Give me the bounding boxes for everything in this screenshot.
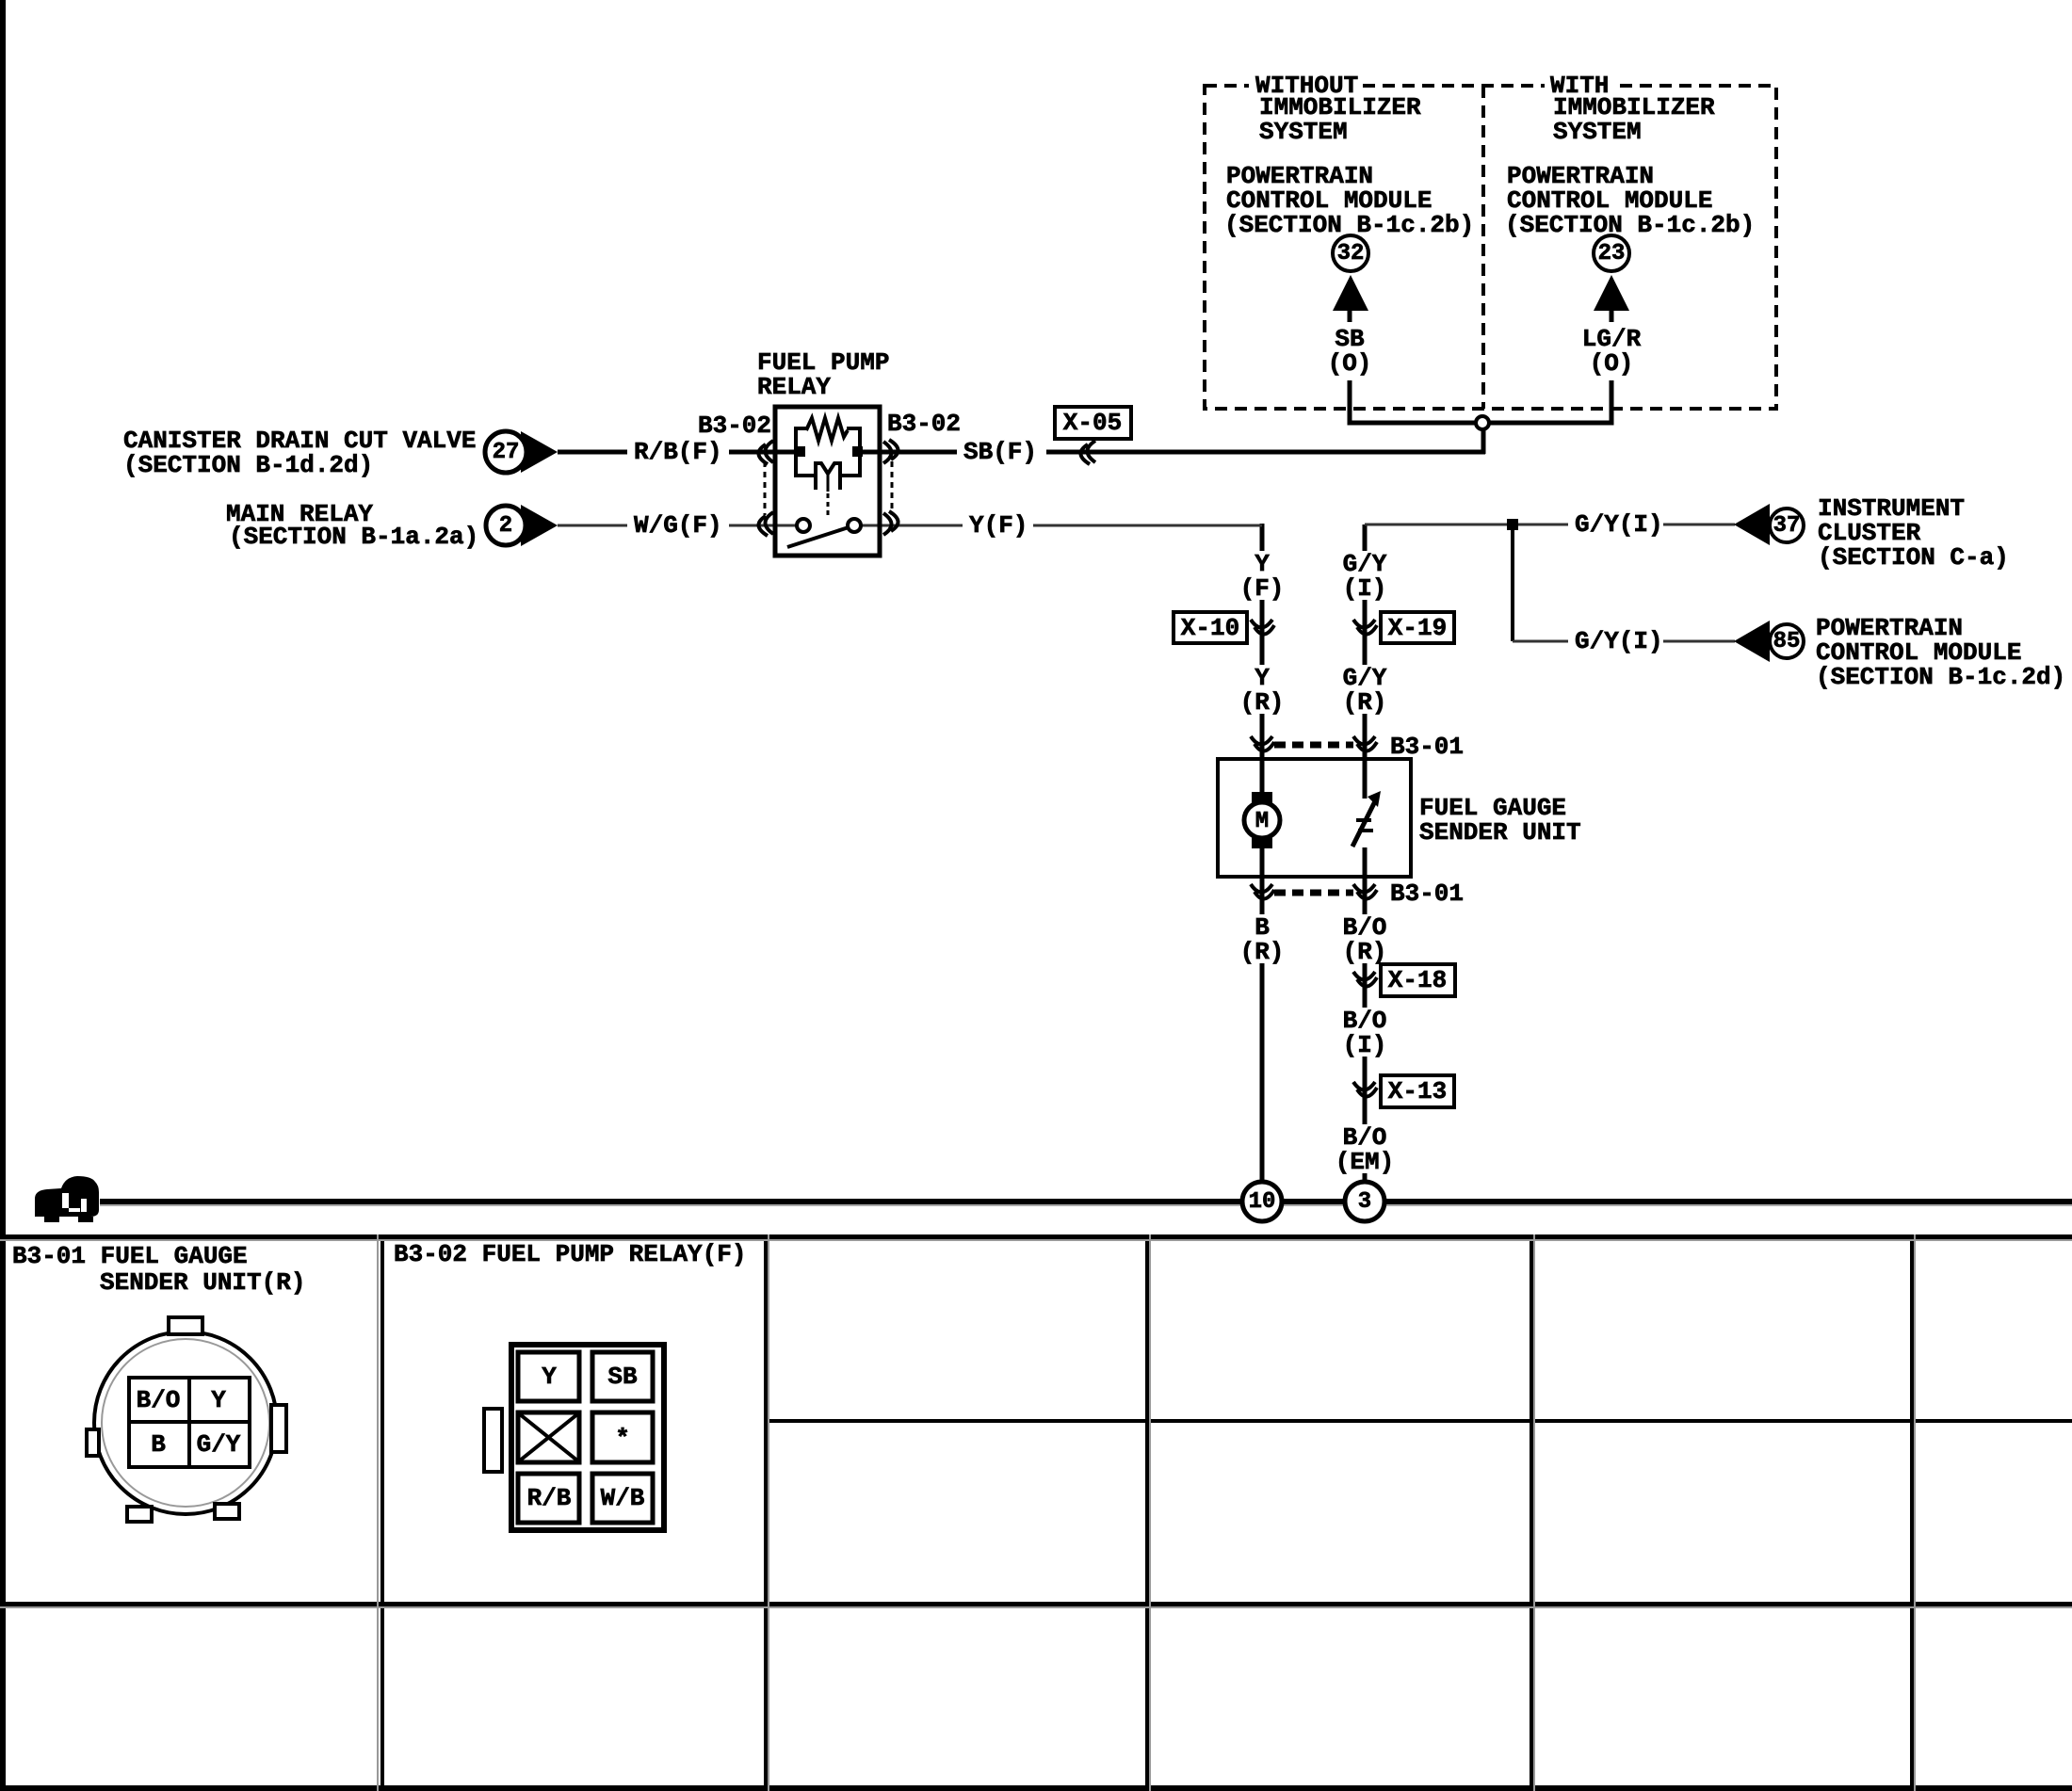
svg-text:B3-02: B3-02 (698, 411, 771, 440)
svg-text:SYSTEM: SYSTEM (1259, 118, 1348, 146)
svg-text:SB: SB (607, 1363, 638, 1391)
svg-text:X-19: X-19 (1388, 614, 1447, 642)
svg-text:B3-01: B3-01 (1390, 733, 1464, 761)
svg-text:X-05: X-05 (1063, 409, 1122, 437)
svg-text:27: 27 (493, 440, 520, 465)
svg-text:Y: Y (211, 1386, 226, 1414)
svg-text:Y: Y (542, 1363, 557, 1391)
svg-text:(R): (R) (1343, 938, 1387, 966)
svg-text:RELAY: RELAY (757, 373, 831, 401)
svg-text:(I): (I) (1343, 574, 1387, 603)
svg-text:B3-01: B3-01 (1390, 879, 1464, 908)
svg-text:B: B (151, 1430, 166, 1459)
svg-text:B3-02 FUEL PUMP RELAY(F): B3-02 FUEL PUMP RELAY(F) (394, 1240, 746, 1268)
svg-text:SYSTEM: SYSTEM (1553, 118, 1642, 146)
svg-text:(SECTION B-1a.2a): (SECTION B-1a.2a) (229, 523, 478, 551)
svg-text:R/B: R/B (527, 1484, 572, 1512)
svg-text:(SECTION B-1c.2b): (SECTION B-1c.2b) (1505, 211, 1755, 239)
svg-text:SB(F): SB(F) (963, 438, 1037, 466)
svg-text:SENDER UNIT: SENDER UNIT (1419, 818, 1581, 847)
svg-text:W/G(F): W/G(F) (634, 511, 722, 540)
svg-text:(SECTION C-a): (SECTION C-a) (1818, 543, 2009, 572)
svg-text:B/O: B/O (137, 1386, 181, 1414)
svg-text:R/B(F): R/B(F) (634, 438, 722, 466)
svg-text:3: 3 (1358, 1189, 1371, 1215)
svg-text:85: 85 (1773, 629, 1801, 654)
svg-text:37: 37 (1773, 513, 1801, 539)
svg-text:X-18: X-18 (1388, 966, 1447, 994)
svg-text:G/Y(I): G/Y(I) (1575, 627, 1663, 655)
svg-text:(O): (O) (1328, 349, 1372, 378)
svg-text:(SECTION B-1c.2d): (SECTION B-1c.2d) (1816, 663, 2065, 691)
svg-text:X-13: X-13 (1388, 1077, 1447, 1105)
svg-text:B3-01 FUEL GAUGE: B3-01 FUEL GAUGE (12, 1242, 248, 1270)
svg-text:M: M (1255, 809, 1269, 834)
svg-text:G/Y(I): G/Y(I) (1575, 510, 1663, 539)
svg-text:10: 10 (1249, 1189, 1276, 1215)
svg-text:Y(F): Y(F) (969, 511, 1028, 540)
svg-text:*: * (615, 1425, 630, 1453)
svg-text:32: 32 (1337, 241, 1365, 266)
svg-text:(R): (R) (1240, 938, 1285, 966)
svg-text:(O): (O) (1590, 349, 1634, 378)
svg-text:(EM): (EM) (1335, 1148, 1394, 1176)
svg-text:(SECTION B-1d.2d): (SECTION B-1d.2d) (123, 451, 373, 479)
svg-text:2: 2 (499, 513, 512, 539)
svg-text:(R): (R) (1343, 688, 1387, 717)
svg-text:(F): (F) (1240, 574, 1285, 603)
svg-text:X-10: X-10 (1181, 614, 1239, 642)
svg-text:23: 23 (1598, 241, 1626, 266)
svg-text:(R): (R) (1240, 688, 1285, 717)
svg-text:B3-02: B3-02 (887, 410, 961, 438)
svg-text:SENDER UNIT(R): SENDER UNIT(R) (100, 1268, 305, 1297)
svg-text:G/Y: G/Y (197, 1430, 241, 1459)
svg-text:W/B: W/B (601, 1484, 645, 1512)
svg-text:(I): (I) (1343, 1031, 1387, 1059)
